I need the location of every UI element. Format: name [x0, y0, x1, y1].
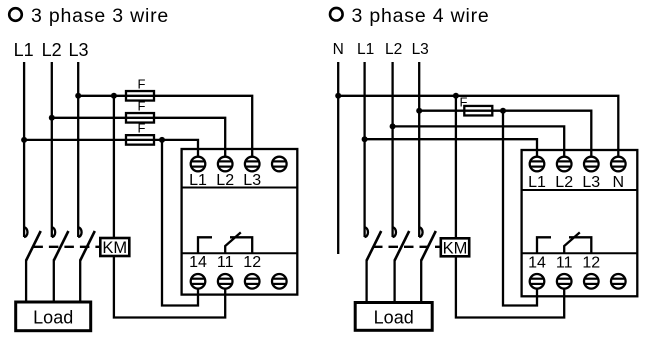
- svg-text:L1: L1: [357, 41, 374, 58]
- terminal L2 top: [557, 157, 572, 172]
- wire L3 to fuse F1 to relay terminal L3: [78, 96, 252, 158]
- terminal L1 top: [191, 157, 206, 172]
- svg-text:L1: L1: [14, 40, 34, 60]
- relay U2 upper separator: [522, 189, 638, 191]
- svg-text:F: F: [138, 121, 146, 136]
- wire L1 vertical: [23, 62, 25, 228]
- terminal 14 bottom: [530, 274, 545, 289]
- wire to KM coil top: [113, 96, 115, 238]
- node fuse output tap: [500, 108, 506, 114]
- wire L3 to fuse F to relay terminal L3: [419, 111, 591, 158]
- wire L3 vertical: [418, 62, 420, 228]
- svg-text:L2: L2: [385, 41, 402, 58]
- title bullet: [330, 8, 343, 21]
- svg-text:KM: KM: [102, 239, 127, 257]
- svg-text:L3: L3: [412, 41, 429, 58]
- svg-text:F: F: [138, 99, 146, 114]
- node terminal-14 tap: [159, 137, 165, 143]
- node N tap: [335, 93, 341, 99]
- fuse F3: [126, 135, 154, 145]
- svg-text:KM: KM: [443, 239, 468, 257]
- terminal 14 bottom: [191, 274, 206, 289]
- wire L2 to fuse F2 to relay terminal L2: [52, 118, 225, 158]
- svg-text:12: 12: [243, 254, 261, 271]
- relay contact common 11 arm: [564, 232, 580, 253]
- svg-text:L1: L1: [528, 174, 546, 191]
- mechanical link dashed to KM: [373, 246, 441, 248]
- terminal spare top: [272, 157, 287, 172]
- wire L1 vertical: [363, 62, 365, 228]
- svg-text:L2: L2: [216, 172, 234, 189]
- relay contact common 11 arm: [225, 232, 241, 253]
- switch pole 3: [78, 227, 95, 302]
- wire to KM coil top: [455, 96, 457, 239]
- node L3 tap: [75, 93, 81, 99]
- wire L2 vertical: [391, 62, 393, 228]
- wire L2 to relay terminal L2: [393, 126, 565, 157]
- svg-text:L1: L1: [189, 172, 207, 189]
- relay contact 14 side: [198, 237, 212, 253]
- fuse F1: [126, 91, 154, 101]
- load box: [355, 303, 432, 331]
- wire fuse output to terminal 14: [503, 111, 537, 306]
- terminal spare bottom: [272, 274, 287, 289]
- svg-text:3 phase 4 wire: 3 phase 4 wire: [352, 5, 490, 27]
- svg-text:12: 12: [582, 255, 600, 272]
- relay contact 14 side: [537, 237, 551, 253]
- wire N to relay terminal N: [338, 96, 618, 158]
- svg-text:N: N: [333, 41, 344, 58]
- relay contact 12 side: [230, 237, 252, 253]
- node KM tap: [111, 93, 117, 99]
- svg-text:14: 14: [189, 254, 207, 271]
- svg-text:11: 11: [556, 255, 573, 272]
- terminal L3 top: [584, 157, 599, 172]
- mechanical link dashed to KM: [33, 246, 100, 248]
- fuse F2: [126, 113, 154, 123]
- wire KM coil bottom to terminal 11: [114, 256, 225, 318]
- contactor coil KM: [441, 238, 469, 257]
- wire fuse F3 output to terminal 14: [162, 140, 198, 306]
- relay U1 upper separator: [182, 187, 298, 189]
- terminal 11 bottom: [218, 274, 233, 289]
- svg-text:L3: L3: [243, 172, 261, 189]
- svg-text:L2: L2: [42, 40, 62, 60]
- node L1 tap: [21, 137, 27, 143]
- svg-text:14: 14: [528, 255, 546, 272]
- svg-text:F: F: [138, 77, 146, 92]
- wire L1 to relay terminal L1: [365, 139, 537, 157]
- relay U1 box: [182, 149, 298, 295]
- node KM tap: [453, 93, 459, 99]
- relay U2 box: [522, 150, 638, 296]
- svg-text:3 phase 3 wire: 3 phase 3 wire: [31, 5, 169, 27]
- terminal L2 top: [218, 157, 233, 172]
- relay U1 lower separator: [182, 252, 298, 254]
- svg-text:Load: Load: [374, 308, 414, 328]
- terminal spare bottom: [611, 274, 626, 289]
- switch pole 1: [365, 227, 382, 302]
- svg-text:11: 11: [217, 254, 234, 271]
- wire N vertical: [337, 62, 339, 254]
- terminal 11 bottom: [557, 274, 572, 289]
- switch pole 3: [419, 227, 436, 302]
- title bullet: [9, 8, 22, 21]
- svg-text:Load: Load: [33, 308, 73, 328]
- svg-text:L3: L3: [582, 174, 600, 191]
- terminal 12 bottom: [584, 274, 599, 289]
- terminal L3 top: [245, 157, 260, 172]
- relay U2 lower separator: [522, 252, 638, 254]
- wire L3 vertical: [77, 62, 79, 228]
- node L2 tap: [390, 123, 396, 129]
- relay contact 12 side: [569, 237, 591, 253]
- wire L2 vertical: [51, 62, 53, 228]
- terminal 12 bottom: [245, 274, 260, 289]
- svg-text:N: N: [613, 174, 625, 191]
- svg-text:L2: L2: [555, 174, 573, 191]
- terminal N top: [611, 157, 626, 172]
- wire L1 to fuse F3 to relay terminal L1: [24, 140, 198, 158]
- svg-text:L3: L3: [68, 40, 88, 60]
- contactor coil KM: [100, 238, 129, 257]
- node L2 tap: [49, 115, 55, 121]
- node L3 tap: [416, 108, 422, 114]
- switch pole 2: [52, 227, 69, 302]
- svg-text:F: F: [460, 95, 468, 110]
- wire KM coil bottom to terminal 11: [456, 256, 564, 317]
- terminal L1 top: [530, 157, 545, 172]
- load box: [16, 302, 91, 331]
- switch pole 1: [24, 227, 41, 302]
- fuse F: [464, 106, 492, 116]
- switch pole 2: [393, 227, 410, 302]
- node L1 tap: [362, 136, 368, 142]
